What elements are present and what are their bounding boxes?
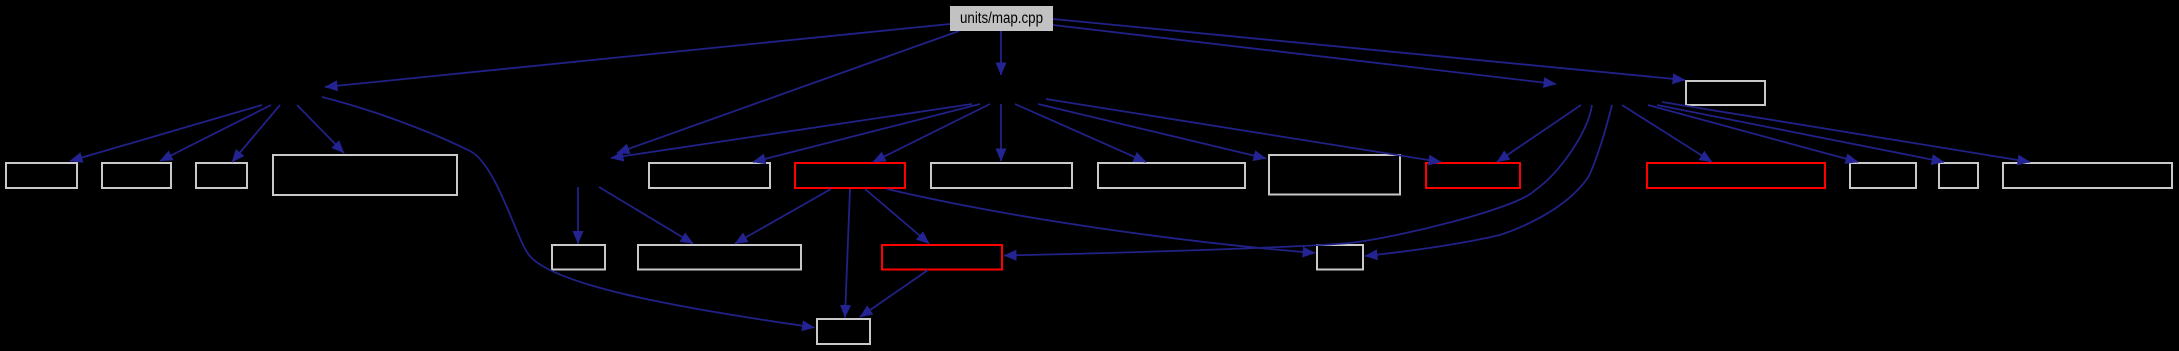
- edge H3 to H1: [611, 104, 972, 158]
- box S4: [1317, 245, 1363, 270]
- box W13: [1939, 163, 1978, 188]
- edge T to H1: [617, 31, 959, 153]
- edge H3 to W5: [753, 104, 980, 162]
- edge R6 to S2: [735, 189, 831, 244]
- box W12: [1850, 163, 1916, 188]
- edge H2 to S3 (curve): [1004, 105, 1592, 256]
- edge H2 to R11: [1622, 105, 1712, 162]
- edge T to R0: [1053, 19, 1685, 80]
- edge R6 to B1: [845, 189, 850, 318]
- edge H2 to S4 (curve): [1365, 105, 1612, 256]
- edge T to H2: [1053, 25, 1556, 84]
- node units/map.cpp: [950, 6, 1053, 31]
- edge H3 to W7: [1000, 104, 1002, 161]
- box W8: [1098, 163, 1245, 188]
- edge H1 to S2: [599, 187, 693, 244]
- box R6 (red): [795, 163, 905, 188]
- edge H1 to S1: [577, 187, 579, 244]
- edge H0 to W1: [70, 105, 262, 161]
- edge H0 to W2: [160, 105, 271, 161]
- box W5: [649, 163, 770, 188]
- edge H2 to W14: [1662, 102, 2030, 162]
- edge H0 to W4: [297, 105, 344, 153]
- box W3: [196, 163, 247, 188]
- edge T to H3: [1000, 31, 1002, 75]
- box W9: [1269, 155, 1400, 195]
- edge H2 to W13: [1657, 105, 1944, 162]
- edge R6 to S4: [887, 189, 1315, 253]
- edge R6 to S3: [865, 189, 929, 244]
- box W14: [2003, 163, 2172, 188]
- box W4: [273, 155, 457, 195]
- box W7: [931, 163, 1072, 188]
- box S1: [552, 245, 605, 270]
- box W1: [6, 163, 77, 188]
- edge S3 to B1: [860, 270, 928, 317]
- box R11 (red): [1647, 163, 1825, 188]
- box R0: [1686, 81, 1765, 105]
- box S3 (red): [882, 245, 1002, 270]
- edge T to H0: [325, 24, 950, 87]
- edge H3 to W9: [1038, 104, 1266, 159]
- edge H0 to W3: [232, 105, 280, 162]
- svg-text:units/map.cpp: units/map.cpp: [960, 10, 1043, 27]
- box R10 (red): [1426, 163, 1520, 188]
- edge H2 to W12: [1648, 105, 1858, 162]
- edge H2 to R10: [1497, 105, 1581, 162]
- edge H3 to W8: [1015, 104, 1146, 162]
- edge H3 to R10: [1046, 99, 1441, 162]
- box B1: [817, 319, 870, 344]
- edge H0 to B1: [322, 97, 815, 328]
- box W2: [102, 163, 171, 188]
- box S2: [638, 245, 801, 270]
- edge H3 to R6: [873, 104, 990, 162]
